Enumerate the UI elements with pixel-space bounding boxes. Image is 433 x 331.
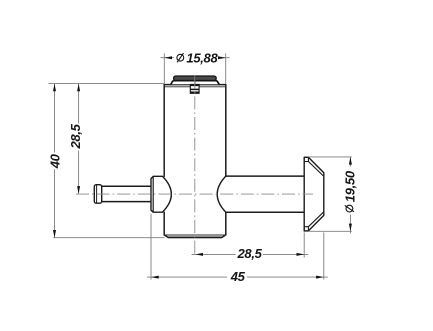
cap rubber pill: [174, 76, 217, 81]
dimension 15,88 line: [160, 57, 229, 59]
dimension 15,88 arrows: [164, 56, 172, 59]
dimension 15,88 extension lines: [164, 53, 225, 84]
dimension 40 arrows: [53, 84, 56, 92]
stem shaft (right): [226, 176, 304, 212]
dimension 19,50 arrows: [349, 157, 352, 165]
nozzle boss: [151, 176, 171, 212]
svg-text:45: 45: [230, 269, 246, 284]
diameter symbol 19,50 and text: [342, 170, 357, 212]
horizontal centerline: [76, 193, 313, 195]
valve stem (threaded): [190, 84, 199, 93]
knob (handwheel): [304, 157, 324, 231]
dimension 28,5 bottom line: [192, 253, 309, 255]
dimension 45 line: [147, 276, 328, 278]
nozzle pipe: [102, 186, 151, 201]
cap flange: [171, 81, 219, 85]
diameter symbol 15,88: [177, 53, 184, 62]
dimension 28,5 left arrows: [77, 84, 80, 92]
dimension 19,50 extension lines: [309, 157, 352, 231]
dimension 28,5 left line: [78, 84, 80, 194]
svg-text:28,5: 28,5: [68, 123, 83, 149]
svg-text:15,88: 15,88: [186, 50, 218, 65]
extension line top-left (body top): [48, 83, 164, 85]
extension line bottom-left (body bottom): [53, 237, 164, 239]
valve body outline: [164, 85, 226, 238]
svg-text:40: 40: [48, 153, 63, 169]
dimension 28,5 bottom right extension: [303, 232, 305, 257]
body bottom thick edge: [168, 236, 222, 238]
body bottom chamfer line: [164, 234, 225, 236]
body top shoulder line: [164, 86, 226, 88]
svg-text:28,5: 28,5: [237, 246, 263, 261]
vertical centerline: [194, 76, 196, 257]
dimension 45 arrows: [151, 276, 159, 279]
nozzle barb ring: [94, 185, 101, 204]
dimension 40 line: [54, 84, 56, 238]
cap centerline tick (black over cap): [194, 76, 196, 85]
dimension 19,50 line: [349, 157, 351, 234]
svg-text:19,50: 19,50: [342, 170, 357, 202]
dimension 28,5 bottom arrows: [195, 253, 203, 256]
shaft-body junction arc: [217, 176, 226, 212]
dimension 45 extension lines: [151, 214, 324, 280]
